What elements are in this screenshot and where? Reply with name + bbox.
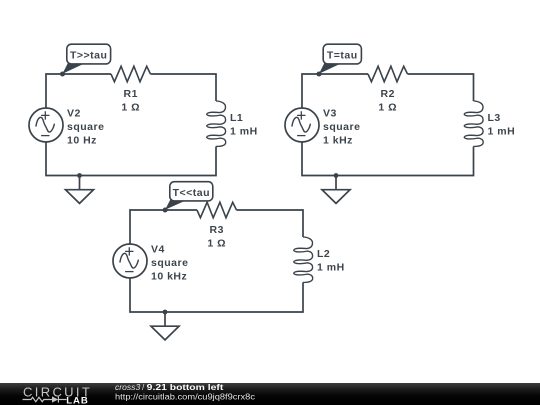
svg-text:square: square bbox=[151, 257, 188, 269]
svg-text:1 mH: 1 mH bbox=[230, 126, 258, 138]
svg-text:R1: R1 bbox=[124, 88, 138, 100]
svg-text:LAB: LAB bbox=[66, 395, 88, 405]
annotation bubble T>>tau bbox=[63, 44, 111, 74]
svg-text:10 kHz: 10 kHz bbox=[151, 271, 187, 283]
svg-text:1 Ω: 1 Ω bbox=[207, 238, 226, 250]
inductor L2 bbox=[294, 237, 313, 283]
resistor R1 bbox=[111, 66, 151, 82]
wire bottom C3 bbox=[130, 278, 303, 312]
wire top-right C1 bbox=[151, 74, 217, 101]
node dot C1 bbox=[60, 72, 65, 77]
CircuitLab logo schematic squiggle bbox=[23, 396, 67, 402]
svg-text:V3: V3 bbox=[323, 108, 337, 120]
svg-text:1 Ω: 1 Ω bbox=[121, 102, 140, 114]
svg-text:T=tau: T=tau bbox=[327, 50, 358, 62]
footer bar background bbox=[0, 383, 540, 405]
svg-text:T>>tau: T>>tau bbox=[70, 50, 107, 62]
wire top-right C3 bbox=[237, 210, 304, 237]
svg-text:V2: V2 bbox=[67, 108, 81, 120]
wire top-left C1 bbox=[46, 74, 111, 108]
ground C2 bbox=[322, 173, 350, 203]
wire top-left C3 bbox=[130, 210, 197, 244]
resistor R3 bbox=[197, 202, 237, 218]
svg-text:1 mH: 1 mH bbox=[317, 262, 345, 274]
svg-text:square: square bbox=[323, 121, 360, 133]
resistor R2 bbox=[368, 66, 408, 82]
wire bottom C1 bbox=[46, 142, 216, 176]
svg-text:1 mH: 1 mH bbox=[488, 126, 516, 138]
annotation bubble T=tau bbox=[319, 44, 361, 74]
svg-text:cross3/9.21 bottom left: cross3/9.21 bottom left bbox=[115, 382, 224, 392]
node dot C3 bbox=[163, 208, 168, 213]
inductor L1 bbox=[207, 101, 226, 147]
ground C3 bbox=[151, 310, 179, 340]
wire top-left C2 bbox=[302, 74, 368, 108]
voltage source V4 bbox=[113, 244, 147, 278]
svg-text:R3: R3 bbox=[210, 224, 224, 236]
voltage source V2 bbox=[29, 108, 63, 142]
svg-text:1 kHz: 1 kHz bbox=[323, 135, 353, 147]
svg-text:L2: L2 bbox=[317, 248, 330, 260]
node dot C2 bbox=[317, 72, 322, 77]
svg-text:T<<tau: T<<tau bbox=[173, 187, 210, 199]
wire top-right C2 bbox=[408, 74, 474, 101]
inductor L3 bbox=[464, 101, 483, 147]
svg-text:R2: R2 bbox=[381, 88, 395, 100]
ground C1 bbox=[66, 173, 94, 203]
annotation bubble T<<tau bbox=[165, 182, 213, 210]
svg-text:L1: L1 bbox=[230, 112, 243, 124]
svg-text:V4: V4 bbox=[151, 244, 165, 256]
svg-text:1 Ω: 1 Ω bbox=[378, 102, 397, 114]
svg-text:square: square bbox=[67, 121, 104, 133]
svg-text:10 Hz: 10 Hz bbox=[67, 135, 97, 147]
wire bottom C2 bbox=[302, 142, 474, 176]
svg-text:http://circuitlab.com/cu9jq8f9: http://circuitlab.com/cu9jq8f9crx8c bbox=[115, 392, 255, 401]
voltage source V3 bbox=[285, 108, 319, 142]
svg-text:L3: L3 bbox=[488, 112, 501, 124]
